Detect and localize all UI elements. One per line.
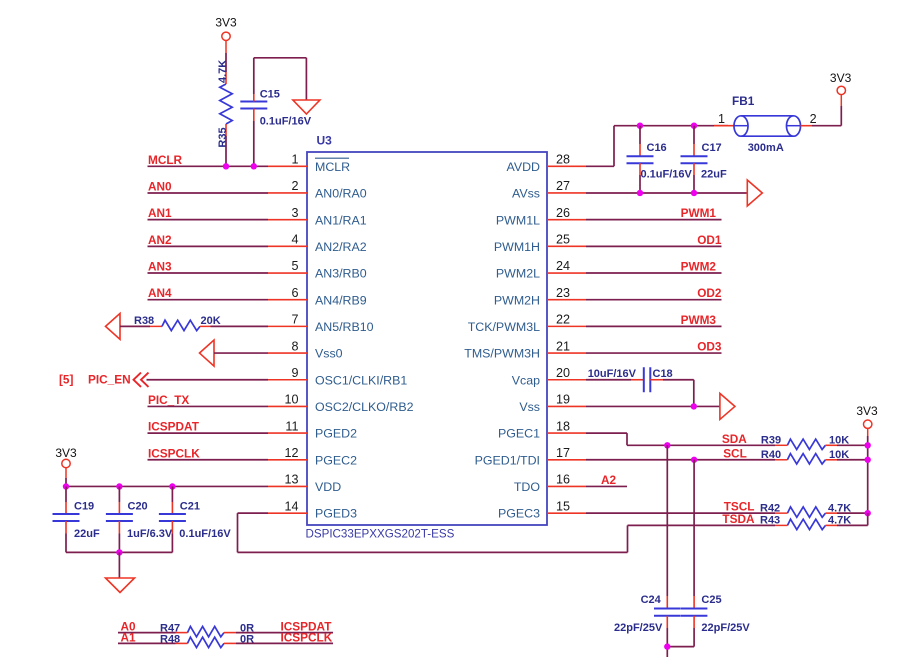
wire 3V3 to R35: [225, 41, 227, 73]
svg-text:A1: A1: [121, 630, 137, 644]
pin 28 AVDD: [506, 153, 586, 174]
pin 7 AN5/RB10: [268, 313, 374, 334]
svg-text:TSDA: TSDA: [722, 512, 755, 526]
net label ICSPCLK: [148, 446, 200, 460]
net label A1: [121, 630, 137, 644]
power port 3V3 (left): [55, 446, 77, 468]
svg-text:C20: C20: [128, 501, 148, 513]
net label AN3: [148, 260, 172, 274]
svg-text:VDD: VDD: [315, 480, 341, 494]
capacitor C16: [627, 126, 693, 193]
svg-text:AN1/RA1: AN1/RA1: [315, 213, 367, 227]
svg-text:22uF: 22uF: [701, 169, 727, 181]
svg-text:21: 21: [556, 339, 570, 353]
pin 3 AN1/RA1: [268, 206, 367, 227]
pin 26 PWM1L: [496, 206, 586, 227]
svg-text:17: 17: [556, 446, 570, 460]
svg-text:2: 2: [291, 179, 298, 193]
svg-text:ICSPDAT: ICSPDAT: [148, 420, 200, 434]
capacitor C25 22pF/25V: [681, 460, 751, 647]
wire PGEC3 TSCL row: [586, 512, 788, 514]
svg-text:R39: R39: [761, 435, 781, 447]
wire R48 to ICSPCLK: [224, 642, 333, 644]
net label OD2: [697, 286, 722, 300]
svg-text:Vss: Vss: [519, 400, 540, 414]
svg-text:11: 11: [285, 419, 298, 433]
svg-text:ICSPCLK: ICSPCLK: [281, 630, 333, 644]
pin 23 PWM2H: [494, 286, 586, 307]
pin 20 Vcap: [512, 366, 586, 387]
capacitor C17: [681, 126, 727, 193]
capacitor C19: [53, 486, 100, 552]
wire R42 to 3V3: [826, 512, 868, 514]
capacitor C15: [240, 89, 311, 128]
svg-text:AN0: AN0: [148, 179, 172, 193]
svg-text:22pF/25V: 22pF/25V: [614, 622, 663, 634]
pin 21 TMS/PWM3H: [464, 339, 586, 360]
resistor R38 20K: [134, 315, 221, 331]
svg-text:C18: C18: [653, 368, 673, 380]
resistor R40 10K: [761, 449, 849, 464]
pin 15 PGEC3: [498, 499, 586, 520]
svg-text:[5]: [5]: [59, 373, 73, 387]
IC U3 DSPIC33EPXXGS202T-ESS body: [306, 134, 548, 541]
svg-text:1: 1: [291, 153, 298, 167]
net label AN1: [148, 206, 172, 220]
svg-text:PGED2: PGED2: [315, 427, 357, 441]
pin 12 PGEC2: [268, 446, 357, 467]
resistor R35: [217, 60, 232, 148]
wire 3V3 down to VDD rail: [65, 468, 67, 487]
svg-text:AN4: AN4: [148, 286, 172, 300]
wire AN2 to pin 4: [148, 245, 269, 247]
pin 27 AVss: [512, 179, 586, 200]
wire A0 to R47: [118, 632, 188, 634]
wire VDD rail: [66, 485, 268, 487]
wire AN0 to pin 2: [148, 192, 269, 194]
pin 16 TDO: [514, 473, 586, 494]
net label AN0: [148, 179, 172, 193]
svg-text:18: 18: [556, 419, 570, 433]
svg-text:10uF/16V: 10uF/16V: [588, 368, 637, 380]
net label [5] PIC_EN: [59, 373, 149, 387]
junction rail/C17: [691, 123, 697, 129]
power port 3V3 (top right): [830, 71, 852, 95]
svg-text:AVss: AVss: [512, 187, 540, 201]
svg-text:PWM3: PWM3: [681, 313, 717, 327]
svg-text:PWM1H: PWM1H: [494, 240, 540, 254]
svg-text:OD2: OD2: [697, 286, 722, 300]
svg-text:3: 3: [291, 206, 298, 220]
capacitor C20: [106, 486, 173, 552]
wire PIC_EN to pin 9: [147, 379, 269, 381]
svg-text:22pF/25V: 22pF/25V: [701, 622, 750, 634]
pin 6 AN4/RB9: [268, 286, 367, 307]
wire PWM2: [586, 272, 722, 274]
svg-text:TDO: TDO: [514, 480, 541, 494]
svg-text:3V3: 3V3: [55, 446, 77, 460]
pin 11 PGED2: [268, 419, 357, 440]
pin 22 TCK/PWM3L: [468, 313, 586, 334]
svg-text:1: 1: [718, 112, 725, 126]
ground arrow (Vss): [720, 393, 735, 419]
net label A2: [601, 473, 617, 487]
wire cap bottom rail: [66, 551, 172, 553]
svg-text:C19: C19: [74, 501, 94, 513]
svg-text:AN3: AN3: [148, 260, 172, 274]
svg-text:4.7K: 4.7K: [217, 60, 229, 83]
wire R35 to MCLR node: [225, 136, 227, 166]
svg-text:AN1: AN1: [148, 206, 172, 220]
svg-text:R40: R40: [761, 449, 781, 461]
wire R43 to 3V3 node: [826, 513, 868, 525]
svg-text:PIC_TX: PIC_TX: [148, 393, 189, 407]
net label OD1: [697, 233, 722, 247]
wire PGED1/TDI SCL row: [586, 459, 787, 461]
junction MCLR/C15: [251, 163, 257, 169]
svg-text:OSC2/CLKO/RB2: OSC2/CLKO/RB2: [315, 400, 414, 414]
wire OD1: [586, 245, 722, 247]
svg-text:19: 19: [556, 393, 570, 407]
junction rail/C16: [637, 123, 643, 129]
wire OD2: [586, 299, 722, 301]
junction MCLR/R35: [223, 163, 229, 169]
svg-text:AN0/RA0: AN0/RA0: [315, 187, 367, 201]
net label ICSPDAT: [281, 620, 333, 634]
wire C25 to C24 bottom: [667, 647, 694, 657]
wire R40 to 3V3: [825, 459, 867, 461]
net label OD3: [697, 340, 722, 354]
svg-text:FB1: FB1: [732, 94, 755, 108]
pin 10 OSC2/CLKO/RB2: [268, 393, 414, 414]
svg-text:Vss0: Vss0: [315, 347, 343, 361]
svg-text:23: 23: [556, 286, 570, 300]
junction 3V3/TSCL/TSDA: [865, 510, 871, 516]
svg-text:28: 28: [556, 153, 570, 167]
svg-text:25: 25: [556, 233, 570, 247]
svg-text:26: 26: [556, 206, 570, 220]
wire to ground: [118, 552, 120, 578]
wire PWM1: [586, 219, 722, 221]
svg-text:12: 12: [284, 446, 298, 460]
ground (below C20): [106, 578, 135, 593]
port arrow (Vss0): [200, 340, 215, 366]
net label ICSPCLK: [281, 630, 333, 644]
svg-text:OD3: OD3: [697, 340, 722, 354]
svg-text:R38: R38: [134, 315, 154, 327]
net label MCLR: [148, 153, 183, 167]
svg-text:PWM2H: PWM2H: [494, 293, 540, 307]
wire AN4 to pin 6: [148, 299, 269, 301]
junction 3V3/SCL: [865, 457, 871, 463]
svg-text:9: 9: [291, 366, 298, 380]
svg-text:5: 5: [291, 259, 298, 273]
svg-text:ICSPCLK: ICSPCLK: [148, 446, 200, 460]
net label SCL: [723, 446, 747, 460]
wire port to pin 8: [214, 352, 268, 354]
pin 4 AN2/RA2: [268, 233, 367, 254]
svg-text:PGEC2: PGEC2: [315, 453, 357, 467]
svg-text:AN4/RB9: AN4/RB9: [315, 293, 367, 307]
svg-text:PWM1L: PWM1L: [496, 213, 540, 227]
svg-text:R43: R43: [760, 515, 780, 527]
net label ICSPDAT: [148, 420, 200, 434]
svg-text:OD1: OD1: [697, 233, 722, 247]
svg-text:MCLR: MCLR: [315, 160, 350, 174]
pin 9 OSC1/CLKI/RB1: [268, 366, 407, 387]
wire AVDD to top rail: [586, 126, 728, 167]
svg-text:24: 24: [556, 259, 570, 273]
svg-text:U3: U3: [317, 134, 333, 148]
net label PWM3: [681, 313, 717, 327]
net label PWM2: [681, 260, 717, 274]
wire A1 to R48: [118, 642, 188, 644]
svg-text:PGEC3: PGEC3: [498, 507, 540, 521]
junction Vss/C18: [691, 403, 697, 409]
wire ICSPCLK to pin 12: [148, 459, 269, 461]
pin 5 AN3/RB0: [268, 259, 367, 280]
capacitor C21: [159, 486, 231, 552]
net label SDA: [722, 432, 747, 446]
svg-text:15: 15: [556, 499, 570, 513]
junction bottom rail/ground: [116, 549, 122, 555]
ferrite bead FB1 300mA: [714, 94, 817, 154]
resistor R48 0R: [160, 633, 254, 647]
junction AVss/C16: [637, 190, 643, 196]
svg-text:R35: R35: [217, 127, 229, 147]
pin 17 PGED1/TDI: [475, 446, 586, 467]
pin 19 Vss: [519, 393, 586, 414]
wire Vss: [586, 405, 720, 407]
svg-text:0.1uF/16V: 0.1uF/16V: [260, 116, 312, 128]
svg-text:7: 7: [291, 313, 298, 327]
pin 1 MCLR: [268, 153, 350, 174]
wire R39 to 3V3: [825, 444, 867, 446]
junction AVss/C17: [691, 190, 697, 196]
wire MCLR to pin 1: [148, 165, 269, 167]
svg-text:PGEC1: PGEC1: [498, 427, 540, 441]
wire AVss: [586, 192, 747, 194]
pin 13 VDD: [268, 473, 341, 494]
pin 2 AN0/RA0: [268, 179, 367, 200]
svg-text:AN2/RA2: AN2/RA2: [315, 240, 367, 254]
svg-text:C21: C21: [180, 501, 200, 513]
wire AN1 to pin 3: [148, 219, 269, 221]
svg-text:PGED3: PGED3: [315, 507, 357, 521]
port arrow (AN5 input): [106, 313, 121, 339]
svg-text:10: 10: [284, 393, 298, 407]
svg-text:AN5/RB10: AN5/RB10: [315, 320, 374, 334]
svg-text:AN2: AN2: [148, 233, 172, 247]
svg-text:13: 13: [284, 473, 298, 487]
svg-text:OSC1/CLKI/RB1: OSC1/CLKI/RB1: [315, 373, 407, 387]
ground (top, C15): [293, 100, 320, 114]
junction SCL/C25: [691, 457, 697, 463]
svg-text:Vcap: Vcap: [512, 373, 540, 387]
svg-text:C25: C25: [701, 594, 721, 606]
junction VDD/C21: [169, 483, 175, 489]
svg-text:SDA: SDA: [722, 432, 747, 446]
wire Vcap to C18: [586, 379, 644, 381]
svg-text:14: 14: [284, 499, 298, 513]
svg-text:0.1uF/16V: 0.1uF/16V: [641, 169, 693, 181]
svg-text:27: 27: [556, 179, 570, 193]
resistor R43 4.7K: [760, 515, 851, 530]
svg-text:22uF: 22uF: [74, 528, 100, 540]
resistor R47 0R: [160, 623, 254, 637]
junction 3V3/SDA: [865, 442, 871, 448]
pin 8 Vss0: [268, 339, 343, 360]
svg-text:R48: R48: [160, 633, 180, 645]
junction VDD/C19: [63, 483, 69, 489]
svg-text:C17: C17: [702, 142, 722, 154]
wire OD3: [586, 352, 722, 354]
svg-text:TMS/PWM3H: TMS/PWM3H: [464, 347, 540, 361]
wire AN3 to pin 5: [148, 272, 269, 274]
pin 14 PGED3: [268, 499, 357, 520]
svg-text:PGED1/TDI: PGED1/TDI: [475, 453, 540, 467]
svg-text:3V3: 3V3: [830, 71, 852, 85]
ground arrow (AVss): [747, 180, 762, 206]
pin 25 PWM1H: [494, 233, 586, 254]
junction VDD/C20: [116, 483, 122, 489]
svg-text:TCK/PWM3L: TCK/PWM3L: [468, 320, 540, 334]
svg-text:0.1uF/16V: 0.1uF/16V: [179, 528, 231, 540]
svg-text:1uF/6.3V: 1uF/6.3V: [127, 528, 173, 540]
net label TSDA: [722, 512, 755, 526]
pin 18 PGEC1: [498, 419, 586, 440]
svg-text:20K: 20K: [201, 315, 221, 327]
svg-text:3V3: 3V3: [856, 404, 878, 418]
svg-text:SCL: SCL: [723, 446, 747, 460]
pin 24 PWM2L: [496, 259, 586, 280]
svg-text:4: 4: [291, 233, 298, 247]
wire port to R38: [120, 325, 162, 327]
wire R38 to pin 7: [200, 325, 268, 327]
net label PWM1: [681, 206, 717, 220]
svg-text:AN3/RB0: AN3/RB0: [315, 267, 367, 281]
wire TDO: [586, 485, 627, 487]
svg-text:16: 16: [556, 473, 570, 487]
svg-text:R42: R42: [760, 502, 780, 514]
svg-text:PIC_EN: PIC_EN: [88, 373, 131, 387]
svg-text:PWM2: PWM2: [681, 260, 717, 274]
net label PIC_TX: [148, 393, 189, 407]
svg-text:MCLR: MCLR: [148, 153, 183, 167]
wire ICSPDAT to pin 11: [148, 432, 269, 434]
power port 3V3 (right): [856, 404, 878, 429]
svg-text:300mA: 300mA: [748, 142, 784, 154]
resistor R42 4.7K: [760, 502, 851, 517]
wire PWM3: [586, 325, 722, 327]
net label A0: [121, 620, 137, 634]
capacitor C24 22pF/25V: [614, 445, 681, 646]
svg-text:20: 20: [556, 366, 570, 380]
net label AN4: [148, 286, 172, 300]
svg-text:PWM2L: PWM2L: [496, 267, 540, 281]
svg-text:PWM1: PWM1: [681, 206, 717, 220]
net label AN2: [148, 233, 172, 247]
svg-text:DSPIC33EPXXGS202T-ESS: DSPIC33EPXXGS202T-ESS: [306, 528, 455, 541]
wire R47 to ICSPDAT: [224, 632, 333, 634]
wire C18 to Vss row: [650, 380, 694, 407]
junction SDA/C24: [664, 442, 670, 448]
svg-text:2: 2: [810, 112, 817, 126]
wire PGEC1 to SDA row: [586, 433, 787, 445]
wire FB1 to 3V3: [812, 95, 841, 126]
junction C24/C25: [664, 643, 670, 649]
svg-text:8: 8: [291, 339, 298, 353]
resistor R39 10K: [761, 435, 849, 450]
wire TSDA row: [628, 524, 788, 526]
svg-text:C15: C15: [260, 89, 280, 101]
wire 3V3 down to pullups: [867, 428, 869, 513]
svg-text:22: 22: [556, 313, 570, 327]
svg-text:C24: C24: [641, 594, 662, 606]
capacitor C18 10uF/16V: [588, 367, 673, 392]
svg-text:AVDD: AVDD: [506, 160, 540, 174]
svg-text:3V3: 3V3: [215, 16, 237, 30]
net label TSCL: [724, 500, 755, 514]
power port 3V3 (top left): [215, 16, 237, 41]
wire PGED3 (pin14) under chip to TSDA row: [238, 513, 628, 552]
svg-text:6: 6: [291, 286, 298, 300]
wire C15 top to ground: [254, 58, 307, 100]
svg-text:C16: C16: [647, 142, 667, 154]
wire C15 bottom to MCLR node: [253, 121, 255, 166]
wire PIC_TX to pin 10: [148, 405, 269, 407]
svg-text:A2: A2: [601, 473, 617, 487]
